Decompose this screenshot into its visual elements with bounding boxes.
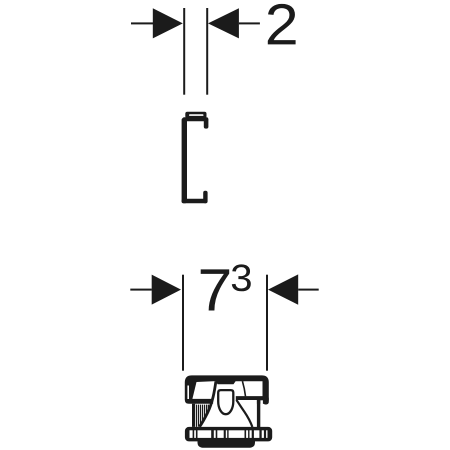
clamp centre dome: [218, 390, 233, 414]
dimension label "7": [201, 269, 229, 310]
dimension "2" right arrowhead: [208, 8, 239, 38]
clamp right support bar: [257, 400, 260, 428]
clamp head right inner slit: [260, 400, 263, 404]
rail profile bottom right lip: [203, 191, 207, 204]
knurled ring inner face: [190, 430, 268, 438]
dimension "7 3" left extension line: [182, 275, 184, 371]
clamp bottom collar: [198, 441, 256, 448]
dimension "2" left extension line: [183, 8, 185, 95]
clamp head right window: [243, 381, 262, 396]
rail profile top right lip: [204, 118, 209, 129]
clamp hatched column lines: [197, 405, 209, 427]
rail profile top cap inner slit: [189, 114, 204, 116]
dimension "2" left leader line: [131, 22, 153, 24]
dimension "2" left arrowhead: [153, 8, 183, 38]
dimension "7 3" right arrowhead: [268, 274, 298, 304]
clamp head left slit window: [187, 386, 189, 400]
dimension "7 3" right leader line: [298, 289, 319, 291]
knurled ring stripes: [193, 430, 267, 438]
clamp bell right contour: [236, 400, 252, 427]
clamp bell left contour: [200, 381, 216, 427]
clamp head left window: [192, 381, 215, 399]
rail profile top cap (folded sheet): [185, 112, 206, 119]
dimension "7 3" right extension line: [266, 275, 268, 371]
clamp head right frame foot: [263, 396, 269, 405]
clamp head outer body: [185, 375, 269, 403]
rail profile shoulder: [183, 117, 209, 121]
dimension label "2": [268, 4, 296, 45]
clamp left support bar: [192, 404, 195, 427]
rail profile left web: [182, 118, 187, 203]
dimension "2" right leader line: [239, 22, 260, 24]
clamp head centre opening: [213, 381, 257, 405]
knurled ring outer: [185, 427, 272, 442]
dimension "7 3" left arrowhead: [152, 275, 181, 305]
clamp inner cone right edge: [242, 381, 245, 396]
dimension "2" right extension line: [206, 8, 208, 95]
dimension label superscript "3": [232, 264, 251, 291]
dimension "7 3" left leader line: [130, 289, 152, 291]
rail profile bottom flange: [182, 199, 208, 204]
